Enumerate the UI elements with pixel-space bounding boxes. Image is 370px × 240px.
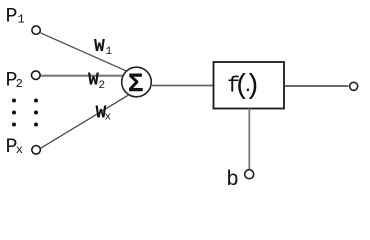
wire: box to output node: [285, 85, 349, 87]
svg-text:x: x: [105, 112, 112, 124]
svg-text:W: W: [94, 37, 105, 57]
svg-text:2: 2: [99, 80, 106, 92]
wire: bias to box: [248, 109, 250, 170]
svg-text:1: 1: [18, 13, 25, 27]
svg-text:x: x: [16, 143, 23, 157]
svg-text:P: P: [6, 5, 18, 28]
svg-text:2: 2: [16, 77, 23, 91]
wire Wx: input x to summation: [41, 95, 129, 148]
ellipsis dots column 2: [34, 99, 38, 127]
wire W1: input 1 to summation: [40, 33, 126, 71]
label W2: [88, 70, 105, 92]
label W1: [94, 37, 113, 58]
svg-text:1: 1: [106, 46, 113, 58]
svg-text:b: b: [226, 169, 239, 191]
svg-text:W: W: [88, 70, 99, 90]
transfer function box f(.): [214, 62, 285, 109]
output node: [350, 82, 358, 90]
label P1: [6, 5, 25, 28]
label Px: [6, 136, 24, 159]
label Wx: [96, 104, 112, 124]
input node P1: [32, 26, 40, 34]
input node P2: [32, 71, 41, 80]
svg-text:): ): [244, 71, 261, 102]
summation unit circle: [122, 67, 152, 97]
input node Px: [32, 146, 41, 155]
wire: summation to transfer function box: [152, 85, 213, 87]
label P2: [6, 70, 23, 93]
ellipsis dots column 1: [12, 99, 16, 127]
label f(.): [227, 71, 261, 102]
svg-text:Σ: Σ: [128, 69, 144, 99]
wire W2: input 2 to summation: [41, 75, 123, 77]
bias node: [245, 170, 254, 179]
